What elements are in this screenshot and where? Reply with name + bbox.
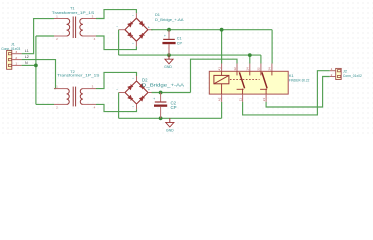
wire N vertical T1 primary bottom to T2 primary bottom bbox=[35, 36, 37, 104]
connector J2 bbox=[330, 67, 362, 80]
svg-text:CP: CP bbox=[177, 41, 183, 45]
wire N J1.1 to junction bbox=[22, 64, 36, 66]
ground GND1 bbox=[164, 55, 173, 69]
svg-text:~: ~ bbox=[132, 42, 134, 46]
svg-text:+: + bbox=[148, 25, 150, 29]
wire T1 primary bottom bbox=[36, 35, 54, 37]
wire GND rail upper bbox=[119, 54, 261, 56]
ground GND2 bbox=[166, 118, 174, 132]
K1 mechanical link bbox=[230, 79, 260, 81]
svg-text:1: 1 bbox=[331, 67, 333, 71]
svg-text:Transformer_1P_1S: Transformer_1P_1S bbox=[57, 74, 100, 78]
svg-text:2: 2 bbox=[331, 73, 333, 77]
wire plus rail upper bbox=[151, 29, 272, 31]
svg-text:+: + bbox=[148, 88, 150, 92]
svg-text:24: 24 bbox=[268, 67, 272, 71]
diode bridge D2 bbox=[116, 76, 153, 109]
wire D2 plus to relay pin 12 bbox=[191, 59, 238, 92]
K1 pole 1 contacts bbox=[237, 71, 250, 94]
K1 bottom pin stubs bbox=[222, 94, 267, 102]
wire L2 J1.2 to T2 primary top bbox=[22, 60, 56, 89]
transformer T2 bbox=[54, 87, 96, 107]
diode bridge D1 bbox=[116, 13, 153, 46]
relay K1 bbox=[209, 64, 288, 102]
svg-text:Conn_01x03: Conn_01x03 bbox=[1, 47, 20, 51]
svg-text:14: 14 bbox=[246, 67, 250, 71]
transformer T1 bbox=[54, 17, 96, 39]
wire L1 J1.3 to T1 primary top bbox=[22, 19, 54, 54]
wire plus rail lower bbox=[152, 92, 191, 94]
svg-text:11: 11 bbox=[238, 98, 242, 101]
wire T1 secondary top to D1 AC top bbox=[96, 10, 136, 19]
wire T2 secondary bottom to D2 AC bottom bbox=[96, 104, 137, 111]
svg-text:CP: CP bbox=[171, 105, 177, 110]
K1 pole 2 contacts bbox=[260, 71, 272, 94]
wire D1 minus drop bbox=[118, 30, 120, 55]
wire T2 primary bottom bbox=[36, 103, 54, 105]
capacitor C1 bbox=[162, 30, 182, 55]
junction GND rail lower / C2 bbox=[159, 116, 163, 120]
wire to relay pin 24 bbox=[271, 30, 273, 64]
svg-text:GND: GND bbox=[166, 128, 174, 132]
junction plus rail lower / C2 bbox=[159, 91, 163, 95]
wire relay pin 21 to J2 pin 2 bbox=[266, 77, 330, 108]
svg-text:22: 22 bbox=[257, 67, 261, 71]
svg-text:D_Bridge_+-AA: D_Bridge_+-AA bbox=[142, 83, 184, 88]
wire relay pin 11 to J2 pin 1 bbox=[243, 71, 330, 115]
svg-text:~: ~ bbox=[132, 104, 134, 108]
svg-text:L2: L2 bbox=[25, 55, 29, 59]
wire T1 secondary bottom to D1 AC bottom bbox=[96, 36, 136, 50]
junction plus rail / A1 bbox=[220, 28, 224, 32]
svg-text:Transformer_1P_1S: Transformer_1P_1S bbox=[52, 11, 95, 15]
svg-text:21: 21 bbox=[262, 98, 266, 102]
wire to relay pin 14 bbox=[249, 55, 251, 63]
svg-text:J1: J1 bbox=[11, 43, 15, 47]
junction N bbox=[34, 64, 38, 68]
svg-text:FINDER-30.22: FINDER-30.22 bbox=[289, 79, 310, 83]
svg-text:12: 12 bbox=[233, 67, 237, 71]
capacitor C2 bbox=[153, 93, 177, 119]
wire D2 minus drop bbox=[118, 93, 120, 119]
svg-text:+: + bbox=[164, 34, 166, 38]
svg-text:~: ~ bbox=[132, 14, 134, 18]
wire to relay pin 22 bbox=[260, 55, 262, 63]
svg-text:A1: A1 bbox=[217, 67, 221, 71]
connector J1 bbox=[1, 43, 21, 70]
K1 coil bbox=[214, 75, 229, 83]
svg-text:1: 1 bbox=[15, 62, 17, 66]
junction GND rail / pin14 bbox=[248, 53, 252, 57]
svg-text:N: N bbox=[25, 61, 28, 65]
wire to relay pin A1 bbox=[221, 30, 223, 64]
svg-text:2: 2 bbox=[15, 56, 17, 60]
svg-text:T1: T1 bbox=[70, 5, 75, 10]
svg-text:−: − bbox=[116, 25, 118, 29]
svg-text:Conn_01x02: Conn_01x02 bbox=[343, 74, 362, 78]
junction plus rail / C1 bbox=[167, 28, 171, 32]
K1 pin numbers bbox=[217, 67, 271, 102]
svg-text:J2: J2 bbox=[343, 68, 347, 73]
K1 top pin stubs bbox=[222, 64, 272, 72]
svg-text:−: − bbox=[116, 88, 118, 92]
svg-text:GND: GND bbox=[164, 65, 172, 69]
svg-text:D_Bridge_+-AA: D_Bridge_+-AA bbox=[155, 17, 184, 22]
svg-text:K1: K1 bbox=[289, 73, 294, 78]
svg-text:A2: A2 bbox=[217, 97, 221, 101]
svg-text:+: + bbox=[153, 97, 155, 101]
svg-text:C1: C1 bbox=[177, 37, 182, 41]
svg-text:L1: L1 bbox=[25, 49, 29, 53]
junction GND rail / C1 bbox=[167, 53, 171, 57]
wire relay pin A2 drop bbox=[221, 102, 223, 118]
svg-text:~: ~ bbox=[132, 76, 134, 80]
wire T2 secondary top to D2 AC top bbox=[96, 72, 137, 88]
wire GND rail lower bbox=[119, 117, 222, 119]
